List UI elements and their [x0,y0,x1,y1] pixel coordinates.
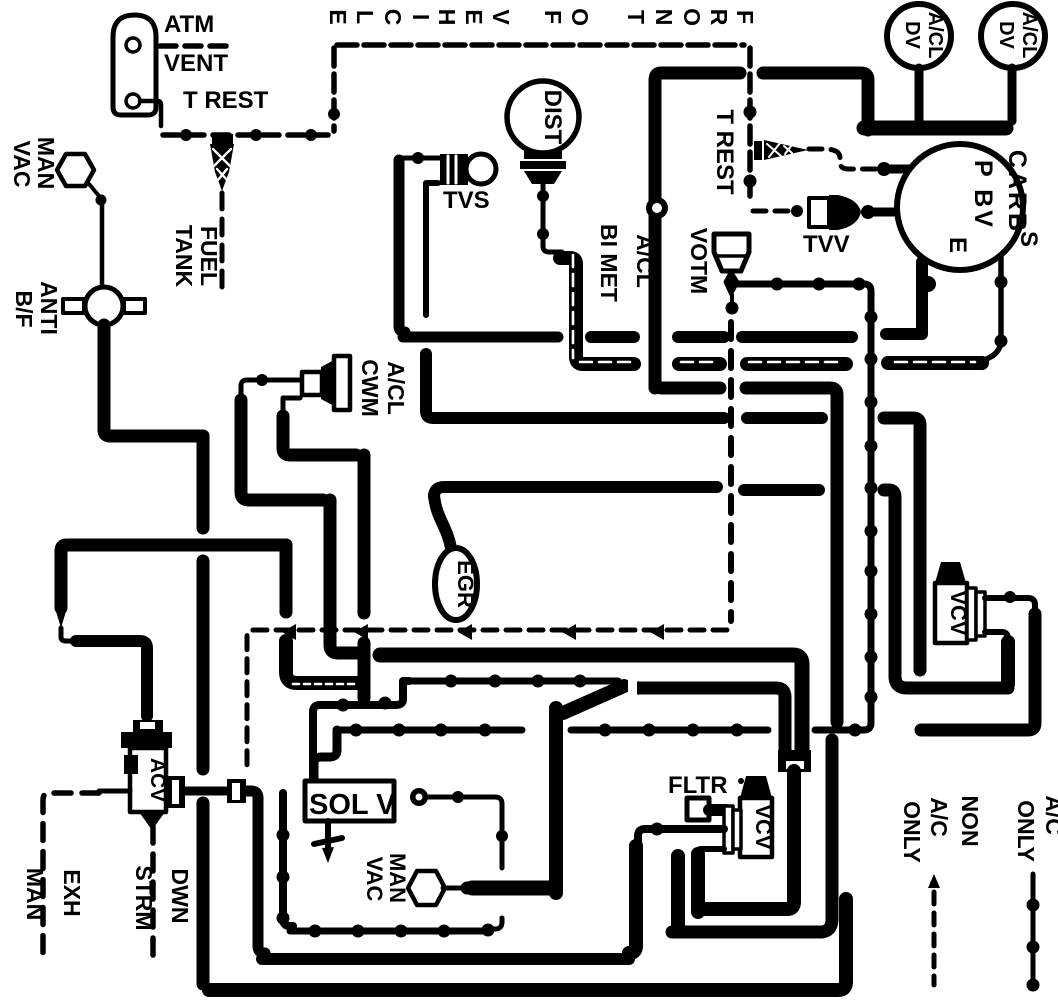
fltr mark [738,778,744,784]
ac beaded acv drop [283,793,293,926]
svg-text:MAN: MAN [33,137,59,189]
svg-text:ANTI: ANTI [36,281,62,335]
filter FLTR [687,798,709,820]
wire vcv2 lower port [700,846,724,852]
wire spark line seg b [679,357,720,371]
junction bead [537,190,549,202]
aircleaner dv circle 2 [981,4,1045,68]
junction bead [256,374,268,386]
svg-text:MAN: MAN [22,868,48,920]
wire egr net vertical [358,455,371,613]
junction bead [853,278,866,291]
ac beaded bottom line [290,928,486,935]
svg-text:S: S [1015,231,1042,247]
anti bf right port [124,299,145,313]
beads manifold [337,675,587,712]
wire nipple to acv [61,628,78,641]
wire dashed canister run [163,132,328,138]
svg-text:F: F [732,10,758,24]
sol v vent dart [314,821,342,848]
junction bead [328,108,340,120]
wire ATM vent dashed [160,43,232,49]
wire egr hose seg b [744,484,819,496]
junction bead [180,129,192,141]
wire dv stem 1 [915,68,924,121]
votm port teardrop [725,271,738,295]
wire stub to vcv upper [884,418,920,670]
svg-text:T: T [623,10,649,24]
wire connector onward [246,791,265,953]
wire vcv2 drop left [671,856,685,925]
beads bottom [309,925,451,938]
svg-text:TVS: TVS [443,187,490,214]
junction bead [305,129,317,141]
wire bar2 [672,926,822,939]
junction bead [496,830,508,842]
wire bead to anti bf [100,204,105,286]
svg-text:TVV: TVV [803,231,850,258]
wire spark capsule [888,356,982,370]
anti bf left port [63,299,84,313]
junction connector blob [563,686,624,713]
junction bead [744,175,757,188]
manifold nipple [55,608,67,628]
wire dv stem 2 [1008,68,1017,121]
wire corrugated u left [286,641,362,683]
junction bead [995,335,1008,348]
wire carb E line seg d [742,331,852,343]
beads acv drop [277,829,290,925]
svg-text:F: F [540,10,566,24]
svg-text:MAN: MAN [385,853,410,903]
wire tvv to carb [873,208,897,217]
junction bead [791,205,803,217]
junction bead [250,129,262,141]
wire t rest to tvv dashed [753,209,790,214]
svg-text:ONLY: ONLY [1013,800,1039,862]
junction bead [861,205,875,219]
wire manifold right corner [280,545,293,612]
fuel tank vapor valve [210,134,234,191]
svg-text:H: H [434,9,460,26]
svg-text:BI MET: BI MET [596,224,622,302]
junction bead [96,195,107,206]
svg-text:E: E [461,9,487,24]
valve ANTI B/F [85,287,123,325]
svg-text:CARB: CARB [1003,150,1031,234]
wire hex to bead [89,184,99,196]
dashed exh man [43,793,99,958]
svg-text:E: E [944,237,971,253]
wire vcv2 mid drop [629,846,636,953]
svg-text:T REST: T REST [711,109,738,195]
manifold beaded line upper [313,681,409,778]
wire spark line seg c [747,357,846,371]
legend non ac dashes [932,892,937,985]
valve ACV assembly [121,720,185,830]
wire votm vertical lower [820,740,832,932]
wire sol v branch [428,797,502,868]
svg-text:A/C: A/C [926,797,952,837]
legend ac beads [1027,899,1040,992]
svg-text:N: N [651,9,677,26]
wire manifold feed left [61,545,286,608]
wire tvs vent lower [426,183,438,315]
wire t rest dashed vertical [747,48,753,204]
wire vcv1 lower drop [1001,642,1015,684]
svg-text:A/CL: A/CL [924,12,946,59]
svg-text:EXH: EXH [59,869,85,916]
svg-text:STRM: STRM [131,865,157,930]
t rest tee symbol [754,140,808,160]
wire vcv2 feed vertical [698,771,794,909]
svg-text:B/F: B/F [11,290,37,327]
wire tee to carb dashed [809,149,876,169]
valve TVV bullet [829,195,861,230]
distributor stack [520,151,566,184]
dashed dwn strm [150,826,156,958]
junction bead [412,152,424,164]
wire junction bar right [636,688,785,758]
wire cwm riser mid [330,500,358,653]
SEC4 [209,562,1058,992]
wire vcv1 lower port [985,632,1008,650]
white stripe overlay spark line [573,255,975,362]
wire dashed corner left [331,48,337,131]
valve TVV body [809,198,829,227]
connector acv right [227,779,246,803]
wire carb E line seg a [403,332,558,343]
canister ATM VENT [113,15,156,115]
wire acv right line [185,787,226,796]
svg-text:ATM: ATM [164,11,214,38]
solenoid valve SOL V [305,781,394,821]
wire egr curve [434,495,451,548]
svg-text:P BV: P BV [969,160,997,230]
canister port bottom [126,94,140,108]
connector slot vcv feed [778,750,811,772]
wire bottom bar outer [209,899,846,990]
wire acv feed thick [76,641,147,716]
wire carb E line seg b [591,331,634,343]
junction bead [651,823,664,836]
junction bead [813,278,826,291]
distributor circle [507,81,579,153]
wire vcv2 mid port [638,829,724,846]
wire votm horizontal seg b [746,388,837,722]
aircleaner cwm device [302,356,350,410]
svg-text:SOL V: SOL V [309,789,396,821]
canister port top [126,38,140,52]
valve VCV 1 [935,562,985,643]
ac beaded vertical right [815,284,871,730]
junction dot [482,924,495,937]
svg-text:VOTM: VOTM [686,228,712,294]
wire dv bar to top corner [763,73,868,130]
wire carb E line seg e [886,262,922,334]
wire stub to vcv lower [884,490,1008,688]
wire votm horizontal seg a [655,382,720,388]
svg-text:A/CL: A/CL [632,234,658,288]
svg-text:C: C [380,9,406,26]
corrugation marks [293,683,358,686]
junction bead [461,882,474,895]
wire cwm upper port [241,380,300,398]
svg-text:A/C: A/C [1041,795,1058,835]
SEC2 [241,160,1008,932]
arrowheads non ac line [282,624,664,640]
junction bead [452,791,464,803]
beaded line 2 mid [571,727,768,734]
port ring a/cl bi met [646,197,668,219]
wire top bar left piece [655,73,740,388]
label FRONT OF VEHICLE letters [325,8,758,26]
wire vcv1 upper port [985,598,1035,616]
hex port MAN VAC [57,154,94,186]
carb circle [897,144,1023,270]
manifold beaded line main [409,678,618,685]
wire left main vertical mid [197,561,210,769]
junction bead [537,228,549,240]
connector white slot [628,675,637,700]
wire carb E line seg c [678,331,724,343]
svg-text:FUEL: FUEL [196,226,222,286]
wire branch hook [492,918,502,929]
wire egr hose seg a [434,487,717,497]
svg-text:ONLY: ONLY [899,801,925,863]
wire left main vertical lower [197,803,210,984]
svg-text:DV: DV [995,21,1017,49]
svg-text:VCV: VCV [751,804,776,850]
wire cwm lower thick [283,416,356,455]
wire tvs riser [399,160,405,332]
votm dashed vacuum line [728,322,734,621]
svg-text:O: O [679,8,705,26]
svg-text:DV: DV [901,21,923,49]
SEC1 [325,4,1045,388]
svg-text:R: R [706,9,732,26]
svg-text:A/CL: A/CL [1018,12,1040,59]
svg-text:DWN: DWN [167,869,193,924]
svg-text:V: V [488,9,514,25]
svg-text:VAC: VAC [9,141,35,188]
junction bead [995,276,1008,289]
wire hex to drop [472,881,550,896]
valve TVS body [440,154,496,185]
wire big drop to man vac [549,708,563,893]
wire bead to carb [890,165,909,174]
junction bead [1004,591,1016,603]
wire dv manifold bar [864,121,1006,136]
wire canister to tee [140,101,161,126]
svg-text:T REST: T REST [183,87,269,114]
wire egr net vertical lower [358,643,371,698]
EGR oval [435,548,477,620]
junction bead [920,276,936,292]
svg-text:VAC: VAC [362,857,387,902]
svg-text:VCV: VCV [946,590,971,636]
wire cwm lower port [283,398,300,414]
wire fuel tank dashed [220,193,225,292]
wire vcv1 upper thick [921,614,1035,730]
hex port man vac 2 [408,871,445,905]
svg-text:O: O [567,8,593,26]
wire bottom bar 2 [262,953,629,965]
svg-text:EGR: EGR [453,560,478,608]
wire man vac hose seg b [747,412,822,424]
svg-text:I: I [408,14,434,20]
svg-text:NON: NON [957,795,983,846]
SEC3 [22,545,862,959]
beads on vertical [865,311,878,704]
svg-text:E: E [325,9,351,24]
wire bar1 [691,854,705,912]
wire dist spark thick elbow [560,258,634,364]
svg-text:DIST: DIST [539,90,566,145]
fltr nub [709,804,726,816]
wire cwm upper thick [241,400,323,500]
svg-text:ACV: ACV [146,758,169,802]
wire votm dashed corner [247,630,727,772]
valve VCV 2 [724,776,772,857]
ac beaded line votm to right [737,281,864,288]
sol v right port ring [410,788,428,806]
aircleaner dv circle 1 [887,4,951,68]
svg-text:FLTR: FLTR [668,772,728,799]
junction bead [877,162,891,176]
wire left main vertical upper [197,436,210,528]
wire top dashed run [337,42,744,48]
legend ac line [1031,874,1036,988]
legend non ac arrow [928,874,940,888]
beads line2 [350,724,862,737]
wire anti bf down [104,325,203,436]
svg-text:A/CL: A/CL [383,361,409,415]
wire man vac hose seg a [426,354,724,418]
beaded line 2 corner to solv [314,730,337,780]
svg-text:L: L [352,10,378,24]
wire hex stub [443,886,461,891]
votm port bead lower [726,302,739,315]
junction bead [771,278,784,291]
wire thick bar y655 [380,655,802,758]
wire tvs top port [399,156,440,161]
wire dist drop [543,184,562,252]
svg-text:CWM: CWM [357,359,383,416]
wire carb S drop [984,256,1001,360]
wire acv left port [99,789,130,794]
beaded line 2 left [337,727,522,734]
svg-text:TANK: TANK [171,225,197,288]
junction bead [744,106,757,119]
votm funnel [714,234,749,271]
svg-text:VENT: VENT [164,50,228,77]
